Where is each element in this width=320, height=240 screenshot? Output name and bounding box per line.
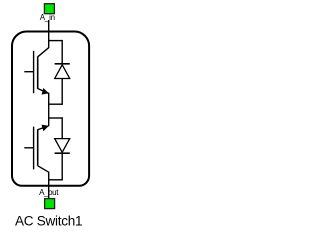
diode D1 (upper, anti-parallel, cathode up) [55, 40, 70, 105]
emitter diagonal [38, 89, 49, 94]
emitter arrowhead [42, 125, 49, 132]
transistor Q1 (upper IGBT) [24, 48, 49, 95]
cathode wire [61, 153, 63, 180]
triangle [55, 65, 70, 79]
svg-text:AC Switch1: AC Switch1 [15, 213, 82, 228]
terminal pin A_out [45, 199, 55, 209]
transistor Q2 (lower IGBT) [24, 125, 49, 173]
gate bar [33, 51, 35, 93]
triangle [55, 139, 70, 153]
gate bar [33, 127, 35, 170]
anode wire [61, 117, 63, 138]
wire: lower diode anode rail [48, 117, 62, 119]
terminal pin A_in [44, 4, 54, 14]
gate lead [24, 71, 33, 73]
wire: middle vertical (common node) [48, 93, 50, 126]
gate lead [24, 147, 33, 149]
svg-text:A_in: A_in [40, 13, 55, 22]
body bar [37, 56, 39, 89]
collector diagonal [38, 48, 49, 57]
svg-text:A_out: A_out [39, 188, 59, 197]
wire: upper diode anode rail [48, 103, 62, 105]
body bar [37, 129, 39, 166]
cathode wire [61, 40, 63, 63]
wire: top rail to diode branch [48, 40, 62, 42]
wire: bottom rail to diode branch [48, 179, 62, 181]
wire: bottom rail junction to bottom pin [48, 172, 50, 199]
anode wire [61, 79, 63, 105]
cathode bar [55, 63, 70, 65]
component body box [12, 32, 89, 186]
emitter arrowhead [42, 88, 49, 95]
wire: top pin to upper collector junction [48, 20, 50, 48]
emitter diagonal [38, 126, 49, 130]
cathode bar [55, 152, 70, 154]
diode D2 (lower, anti-parallel, cathode down) [55, 117, 70, 180]
collector diagonal [38, 166, 49, 172]
